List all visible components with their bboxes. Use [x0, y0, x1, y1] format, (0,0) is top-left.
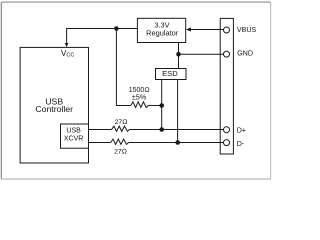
- ESD box: [156, 69, 187, 80]
- wire: VBUS to regulator input: [191, 29, 224, 31]
- svg-text:Regulator: Regulator: [146, 29, 179, 38]
- svg-text:ESD: ESD: [162, 69, 178, 78]
- wire: regulator gnd pin down to ESD: [178, 43, 180, 69]
- junction dot E (D- line): [175, 140, 180, 145]
- wire: D+ from XCVR to R2: [89, 129, 112, 131]
- wire: GND rail to connector: [179, 53, 224, 55]
- pin circle D-: [224, 140, 230, 146]
- junction dot C (gnd rail): [176, 52, 181, 57]
- pin circle VBUS: [224, 27, 230, 33]
- wire: pull-up branch vertical: [116, 29, 130, 106]
- wire: D- line to connector: [129, 142, 224, 144]
- wire: R1 to ESD/D+ vertical: [148, 105, 161, 107]
- pin circle D+: [224, 127, 230, 133]
- junction dot D (D+ line): [159, 127, 164, 132]
- USB XCVR box: [61, 124, 89, 148]
- wire: ESD left pin down to D+: [161, 80, 163, 130]
- svg-text:27Ω: 27Ω: [114, 149, 127, 156]
- svg-text:XCVR: XCVR: [64, 135, 83, 142]
- svg-text:GND: GND: [237, 48, 253, 57]
- svg-text:±5%: ±5%: [132, 93, 147, 102]
- border frame: [1, 2, 270, 179]
- resistor R2 27ohm: [112, 126, 130, 131]
- wire: D+ line to connector: [130, 129, 224, 131]
- svg-text:USB: USB: [66, 128, 81, 135]
- svg-text:D+: D+: [237, 127, 246, 135]
- wire: VCC horizontal from controller to regulator: [67, 29, 138, 44]
- 3.3V regulator box: [137, 18, 185, 42]
- wire: D- from XCVR to R3: [89, 142, 111, 144]
- junction dot A (vcc branch): [114, 26, 119, 31]
- USB connector J1: [220, 18, 233, 154]
- pin circle GND: [224, 51, 230, 57]
- resistor R1 1500ohm: [131, 102, 149, 108]
- arrowhead into controller VCC: [65, 43, 69, 47]
- svg-text:Controller: Controller: [35, 104, 73, 114]
- USB controller box U1: [20, 47, 88, 163]
- svg-text:VBUS: VBUS: [237, 26, 257, 34]
- svg-text:D-: D-: [237, 140, 245, 148]
- junction dot B (R1 / ESD-D+): [159, 103, 164, 108]
- arrowhead into regulator input: [186, 27, 191, 31]
- resistor R3 27ohm: [111, 139, 129, 144]
- wire: ESD right pin down to D-: [177, 80, 179, 143]
- svg-text:27Ω: 27Ω: [115, 119, 128, 126]
